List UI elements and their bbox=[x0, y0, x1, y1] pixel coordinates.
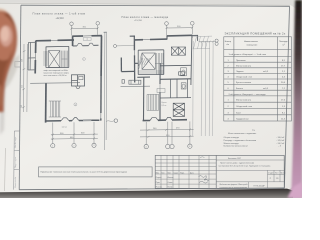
svg-text:- 90,0 м²: - 90,0 м² bbox=[277, 136, 285, 139]
plan1 upper stair treads bbox=[62, 51, 68, 68]
drawing frame border bbox=[19, 5, 289, 190]
svg-text:Подп. и дата: Подп. и дата bbox=[15, 156, 17, 168]
table grid bbox=[224, 37, 292, 121]
svg-text:140: 140 bbox=[21, 105, 23, 108]
svg-text:- 92,0 м²: - 92,0 м² bbox=[277, 139, 285, 142]
svg-text:1-й эт.: 1-й эт. bbox=[62, 125, 68, 128]
dark-to-pink backdrop along right edge bbox=[291, 0, 302, 198]
svg-text:Иванов: Иванов bbox=[168, 177, 174, 179]
plan1 machine-room text smudge bbox=[44, 69, 70, 77]
plan2 kitchen-bath block bbox=[160, 63, 191, 121]
plan2 left axis circle bbox=[114, 119, 117, 122]
svg-text:Балашиха 1997: Балашиха 1997 bbox=[228, 158, 241, 160]
svg-text:Количество жилых комнат: Количество жилых комнат bbox=[224, 146, 248, 148]
svg-text:Н.контр.: Н.контр. bbox=[156, 187, 163, 189]
svg-text:2-ой уровень «Квартира» — манс: 2-ой уровень «Квартира» — мансарда bbox=[229, 93, 267, 96]
plan1 bottom entrance wall with door porches bbox=[46, 118, 100, 121]
plan1 bottom axis circle 2 bbox=[72, 143, 76, 147]
plan2 toilet fixture bbox=[181, 68, 187, 89]
plan2 vent double box bbox=[171, 47, 185, 55]
plan2 right extension lines bbox=[193, 41, 213, 136]
svg-text:Сизов: Сизов bbox=[168, 182, 173, 184]
svg-text:+12,110: +12,110 bbox=[56, 18, 65, 20]
plan1 room circle 1 bbox=[74, 103, 77, 106]
plan2 landing lines under shaft bbox=[139, 71, 164, 73]
left stamp rotated labels bbox=[14, 136, 17, 187]
plan2 porch boxes and lower thin wall bbox=[121, 80, 151, 87]
plan2 small label box bbox=[157, 89, 165, 93]
table rows level 1 bbox=[228, 60, 286, 90]
plan2 left flight diagonals bbox=[139, 54, 142, 70]
plan1 right room outer walls bbox=[72, 36, 102, 121]
plan2 left boundary walls bbox=[121, 40, 134, 82]
paper left edge shading below finger bbox=[0, 55, 6, 135]
svg-text:315: 315 bbox=[21, 85, 23, 88]
svg-text:+15,110: +15,110 bbox=[134, 20, 143, 22]
plan2 top axis circles bbox=[165, 22, 169, 26]
plan1 inner wall with doors bbox=[73, 43, 99, 46]
plan1 bottom axis circle 3 bbox=[92, 143, 96, 147]
svg-text:Площадь с лоджиями и балконами: Площадь с лоджиями и балконами bbox=[224, 140, 257, 142]
plan2 bottom axis circles bbox=[144, 144, 148, 148]
svg-text:Кухня: Кухня bbox=[162, 102, 167, 104]
svg-text:№док: №док bbox=[174, 171, 179, 174]
svg-text:к=0,5: к=0,5 bbox=[263, 88, 269, 90]
svg-text:111: 111 bbox=[276, 178, 279, 180]
plan1 stair hall walls bbox=[46, 46, 69, 67]
svg-text:Примечание: Смежные оконные пл: Примечание: Смежные оконные плиты распол… bbox=[41, 172, 128, 174]
svg-text:мастерскими № 5-6 кор.№ 10 по: мастерскими № 5-6 кор.№ 10 по ул. Трубец… bbox=[219, 164, 271, 167]
svg-text:Наименование: Наименование bbox=[244, 41, 259, 43]
svg-text:м²: м² bbox=[283, 44, 285, 47]
svg-text:Балкон: Балкон bbox=[236, 88, 243, 90]
svg-text:Жилая комната: Жилая комната bbox=[236, 100, 252, 102]
svg-text:Листов: Листов bbox=[280, 173, 285, 175]
plan1 room number circle bbox=[83, 58, 86, 61]
bottom shadow band bbox=[0, 189, 293, 198]
svg-text:Кухня-столовая: Кухня-столовая bbox=[236, 82, 251, 84]
svg-text:Люлин: Люлин bbox=[168, 187, 173, 189]
svg-text:Номер: Номер bbox=[225, 41, 232, 43]
plan1 window closet boxes bbox=[83, 38, 91, 41]
plan2 room label smudge bbox=[162, 102, 167, 107]
svg-text:1: 1 bbox=[75, 104, 76, 106]
plan2 bottom outer wall bbox=[143, 118, 187, 121]
svg-text:Общая площадь: Общая площадь bbox=[224, 137, 239, 139]
svg-text:Итого показатели с лоджиями:: Итого показатели с лоджиями: bbox=[228, 133, 257, 135]
plan1 top dimension line bbox=[71, 25, 99, 35]
paper top edge crease bbox=[0, 3, 290, 5]
plan1 bottom axis circle 1 bbox=[51, 144, 55, 148]
plan1 elevator shaft bbox=[49, 51, 60, 68]
plan1 bath block bbox=[72, 75, 85, 89]
svg-text:- 50,2 м²: - 50,2 м² bbox=[277, 142, 285, 145]
svg-text:Шебекинская фирма «Жилстрой»: Шебекинская фирма «Жилстрой» bbox=[220, 183, 248, 186]
finger shadow on paper bbox=[0, 54, 20, 92]
plan1 bottom dim chains bbox=[51, 122, 98, 143]
svg-text:Обеденный стол: Обеденный стол bbox=[236, 76, 253, 79]
plan2 top wall bbox=[130, 35, 198, 41]
svg-text:Подп.: Подп. bbox=[180, 172, 185, 174]
plan1 top axis circle 1 bbox=[70, 22, 74, 26]
plan1 neighbour section walls far left bbox=[28, 42, 36, 70]
svg-text:План жилого этажа — мансарда: План жилого этажа — мансарда bbox=[122, 15, 169, 19]
background surface bbox=[0, 0, 302, 198]
title block right cells bbox=[216, 160, 284, 188]
svg-text:Лист: Лист bbox=[168, 172, 172, 174]
pink folder bottom-right corner bbox=[288, 182, 303, 198]
table header text bbox=[225, 41, 288, 47]
title block texts bbox=[219, 158, 286, 189]
svg-text:Разраб.: Разраб. bbox=[156, 177, 163, 179]
paper sheet bbox=[0, 3, 297, 193]
plan1 lower stair treads bbox=[49, 101, 61, 117]
svg-text:План жилого этажа — 1-ый этаж: План жилого этажа — 1-ый этаж bbox=[33, 11, 86, 15]
svg-text:Обеденный стол: Обеденный стол bbox=[236, 105, 253, 108]
svg-text:к=0,5: к=0,5 bbox=[263, 71, 269, 73]
finger over paper top-left bbox=[0, 8, 17, 112]
plan2 right side dim line with double axis circle bbox=[199, 41, 216, 43]
svg-text:Взам.инв.№: Взам.инв.№ bbox=[14, 177, 17, 188]
plan2 corridor wall to stair bbox=[135, 62, 139, 64]
plan1 left vertical dim chain bbox=[22, 44, 27, 112]
svg-text:Гардеробная: Гардеробная bbox=[236, 119, 249, 121]
plan1 outer walls, left stair block bbox=[35, 40, 74, 74]
signature scribble bbox=[199, 176, 210, 182]
svg-text:Лист: Лист bbox=[275, 173, 279, 175]
svg-text:Дата: Дата bbox=[190, 172, 194, 174]
svg-text:Жилая комната: Жилая комната bbox=[236, 65, 252, 67]
left stamp column boxes bbox=[14, 62, 21, 190]
plan2 bottom dim chains bbox=[140, 121, 194, 144]
plan2 right boundary wall bbox=[191, 35, 192, 85]
plan2 elevator shaft bbox=[142, 53, 155, 69]
plan2 long left extension line bbox=[103, 33, 106, 151]
plan1 lower stair left wall bbox=[45, 83, 47, 122]
paper left edge shading bbox=[5, 148, 6, 191]
plan2 stair hall outline bbox=[138, 50, 164, 75]
plan1 left dim numbers bbox=[21, 59, 23, 108]
svg-text:Холл: Холл bbox=[236, 112, 242, 114]
svg-text:строительство и проектирование: строительство и проектирование bbox=[220, 187, 248, 189]
plan2 left axis circle B with dim bbox=[114, 45, 117, 48]
note box bbox=[39, 167, 153, 177]
svg-text:2: 2 bbox=[83, 59, 84, 61]
plan2 lower flight diagonals bbox=[139, 58, 149, 65]
plan2 roof slope hatch (adjacent section) bbox=[193, 36, 213, 49]
svg-text:Стадия: Стадия bbox=[268, 173, 274, 175]
plan2 top-left small fragment bbox=[104, 31, 107, 33]
svg-text:отм. низа плиты +14,200 м: отм. низа плиты +14,200 м bbox=[44, 75, 68, 77]
title block outer bbox=[155, 155, 284, 188]
plan2 stair bottom wall bbox=[137, 76, 150, 78]
svg-text:помещения: помещения bbox=[247, 45, 258, 47]
plan2 inner stair steps bbox=[147, 94, 159, 110]
title block left grid verticals bbox=[161, 155, 209, 188]
svg-text:Прихожая: Прихожая bbox=[236, 60, 246, 62]
svg-text:1-ый уровень «Квартира» — 1-ый: 1-ый уровень «Квартира» — 1-ый этаж bbox=[229, 53, 267, 56]
table rows level 2 bbox=[228, 100, 286, 121]
svg-text:ГП 96,100-АР: ГП 96,100-АР bbox=[254, 184, 266, 187]
svg-text:Инв.№ подл.: Инв.№ подл. bbox=[14, 136, 17, 148]
svg-text:Жилая площадь: Жилая площадь bbox=[224, 143, 239, 145]
svg-text:Кол: Кол bbox=[162, 172, 165, 174]
svg-text:ЭКСПЛИКАЦИЯ ПОМЕЩЕНИЙ кв.№ 2х: ЭКСПЛИКАЦИЯ ПОМЕЩЕНИЙ кв.№ 2х bbox=[225, 32, 286, 36]
plan2 small dark box above kitchen bbox=[179, 72, 185, 75]
svg-text:Проект жилого дома с художеств: Проект жилого дома с художественными bbox=[220, 162, 254, 164]
svg-text:8,9 м²: 8,9 м² bbox=[162, 104, 167, 107]
svg-text:228: 228 bbox=[22, 59, 24, 62]
svg-text:Площадь: Площадь bbox=[279, 41, 288, 43]
title block left grid horizontals bbox=[155, 159, 216, 184]
plan1 left flight treads bbox=[44, 51, 47, 66]
svg-text:п/п: п/п bbox=[226, 44, 229, 46]
plan2 top dim line bbox=[166, 25, 194, 36]
plan1 mid horizontal wall bbox=[30, 82, 80, 85]
plan2 stove double X-box bbox=[173, 103, 184, 116]
plan2 stair treads bbox=[155, 53, 164, 75]
svg-text:Лоджия: Лоджия bbox=[236, 71, 243, 73]
svg-text:Пров.: Пров. bbox=[156, 182, 161, 184]
plan1 top axis circle 2 bbox=[96, 22, 100, 26]
plan2 inner vertical wall bbox=[143, 77, 145, 120]
